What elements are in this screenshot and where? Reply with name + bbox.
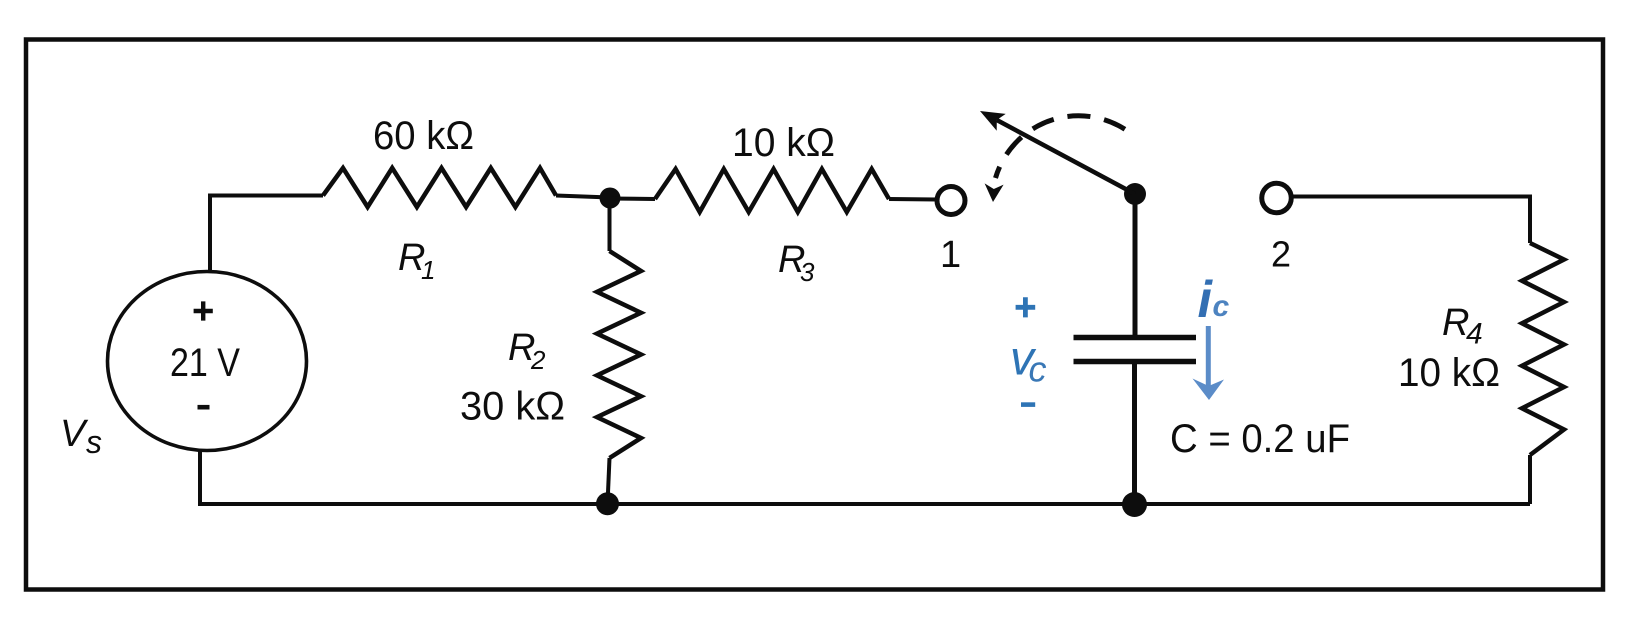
resistor R3 zigzag: [655, 169, 889, 212]
terminal 2 open circle: [1262, 183, 1292, 213]
svg-text:10 kΩ: 10 kΩ: [732, 121, 835, 165]
minus sign in source: [198, 405, 210, 410]
minus annotation (blue): [1021, 402, 1035, 407]
svg-text:10 kΩ: 10 kΩ: [1398, 351, 1500, 395]
svg-text:2: 2: [530, 345, 546, 375]
switch motion dashed arc: [996, 116, 1130, 178]
svg-text:4: 4: [1466, 318, 1483, 351]
wire: node A to R3: [610, 197, 655, 202]
svg-text:1: 1: [940, 234, 961, 276]
plus sign in source: [194, 301, 213, 320]
resistor R2 zigzag: [597, 251, 641, 458]
svg-text:C = 0.2 uF: C = 0.2 uF: [1170, 417, 1350, 461]
svg-text:21 V: 21 V: [170, 341, 240, 385]
svg-text:3: 3: [800, 257, 815, 287]
capacitor C top plate: [1074, 335, 1197, 341]
wire: source top to R1: [210, 196, 323, 273]
svg-text:i: i: [1198, 271, 1214, 329]
wire: pivot down to capacitor: [1133, 194, 1138, 337]
plus annotation (blue): [1016, 297, 1036, 317]
node A junction dot: [600, 188, 621, 209]
svg-text:c: c: [1029, 349, 1047, 390]
voltage source VS circle: [108, 272, 307, 451]
wire: node A down to R2: [608, 198, 612, 251]
svg-text:s: s: [86, 424, 102, 460]
bottom node junction dot (under capacitor): [1122, 492, 1147, 517]
wire: capacitor to bottom node: [1132, 362, 1137, 504]
current arrow ic (blue): [1206, 326, 1211, 389]
wire: R3 to terminal 1: [889, 197, 937, 202]
dashed arc arrowhead: [985, 183, 1004, 202]
capacitor C bottom plate: [1074, 359, 1197, 365]
switch blade: [997, 120, 1135, 194]
wire: R1 to node A: [556, 196, 610, 198]
svg-text:1: 1: [421, 255, 435, 285]
switch blade arrowhead: [980, 111, 1006, 131]
wire: R4 to bottom rail: [1528, 455, 1532, 504]
svg-text:c: c: [1213, 290, 1230, 323]
resistor R1 zigzag: [323, 168, 556, 207]
svg-text:2: 2: [1271, 234, 1291, 275]
svg-text:V: V: [60, 413, 89, 455]
svg-text:30 kΩ: 30 kΩ: [460, 385, 565, 429]
resistor R4 zigzag: [1522, 243, 1564, 455]
bottom node junction dot (under R2): [596, 492, 619, 515]
wire: terminal 2 to R4: [1291, 197, 1531, 244]
terminal 1 open circle: [937, 187, 965, 215]
switch pivot node dot: [1124, 183, 1146, 205]
wire: R2 to bottom node: [608, 458, 610, 504]
bottom rail wire: [607, 502, 1530, 506]
svg-text:60 kΩ: 60 kΩ: [373, 114, 474, 158]
wire: source bottom to bottom rail: [200, 450, 607, 504]
